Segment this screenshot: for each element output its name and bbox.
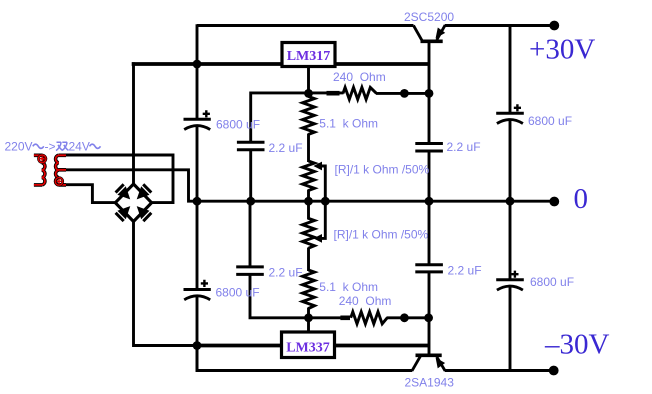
transformer T1 primary winding [34,155,45,185]
bridge rectifier diamond wires [115,184,151,222]
capacitor C7 2.2 uF bottom-right [415,265,443,272]
capacitor C2 2.2 uF top-left [237,142,265,150]
svg-text:–30V: –30V [544,329,610,361]
svg-text:2SC5200: 2SC5200 [404,10,454,24]
svg-text:LM337: LM337 [286,341,330,356]
resistor R4 240 Ohm bottom [351,312,388,324]
svg-text:2.2 uF: 2.2 uF [269,266,303,280]
transistor Q2 2SA1943 [412,355,445,371]
transformer T1 secondary winding with center tap [56,155,66,185]
junction node 0V rail x=308.5 [304,197,313,206]
wire transformer center tap to 0V rail [60,170,198,201]
wire 0V rail to bottom pot [307,201,310,220]
junction node LM337 input column [193,341,202,350]
wire right filter column x=510 [509,24,512,372]
wire LM317 adj stub down to junction [307,64,310,98]
svg-text:6800 uF: 6800 uF [216,118,260,132]
capacitor C6 2.2 uF bottom-left [236,267,264,275]
svg-text:LM317: LM317 [287,49,331,64]
capacitor C5 6800 uF bottom-left electrolytic [184,280,211,300]
wire bottom -30V rail left segment [197,344,412,371]
svg-text:+30V: +30V [529,34,595,66]
node -30V terminal [549,366,559,376]
potentiometer RP2 wiper arrow and lead to 0V rail [313,201,325,243]
wire 0V rail [197,200,554,203]
wire transformer secondary bottom to bridge left corner [60,185,117,203]
bridge diode D2 top-right [137,184,152,199]
wire LM337 input line y=345.5 to box [196,344,282,348]
wire top rail left segment [197,24,414,27]
svg-text:2SA1943: 2SA1943 [405,376,455,390]
wire thick stub before top 240 Ohm [327,91,340,96]
junction node 0V rail x=250.7 [246,197,255,206]
svg-text:240 Ohm: 240 Ohm [333,70,386,84]
svg-text:2.2 uF: 2.2 uF [448,264,482,278]
svg-text:6800 uF: 6800 uF [528,114,572,128]
wire top transistor base vertical x=429 [428,42,431,202]
label 220V~->double 24V~ transformer caption [5,140,101,154]
wire thick stub before bottom 240 Ohm [340,315,350,320]
wire between top 5.1k and top pot [307,134,310,163]
wire y=93.4 from left 2.2uF corner through junction to 240 Ohm [251,93,344,143]
potentiometer RP2 [R]/1 k Ohm /50% bottom body [303,218,315,248]
wire bottom 5.1k to junction and LM337 adj stub [307,308,310,346]
junction node LM337 adj / 240 Ohm [304,313,313,322]
wire top pot bottom to 0V rail [307,190,310,203]
wire bottom -30V rail right segment to terminal [445,369,554,372]
transistor Q1 2SC5200 [414,25,446,41]
capacitor C3 2.2 uF top-right [415,144,443,152]
svg-text:[R]/1 k Ohm /50%: [R]/1 k Ohm /50% [334,228,429,242]
svg-text:0: 0 [574,183,589,215]
svg-text:2.2 uF: 2.2 uF [269,141,303,155]
wire top rail right segment to +30V terminal [445,24,554,27]
node +30V terminal [549,21,559,31]
junction node 0V rail x=429 [425,197,434,206]
wire bottom-left 2.2uF corner to bottom junction y=317.8 [250,275,342,318]
wire bottom transistor base vertical x=429 [428,201,431,356]
wire top-left 2.2uF bottom lead to 0V rail [249,150,252,202]
junction node bottom base column y=317.8 [424,313,433,322]
svg-text:240 Ohm: 240 Ohm [339,294,392,308]
transformer T1 primary polarity mark [38,155,46,163]
bridge diode D4 bottom-right [137,206,152,221]
wire bottom-left 2.2uF top lead from 0V rail [249,201,252,268]
svg-text:6800 uF: 6800 uF [530,275,574,289]
wire bottom 240 Ohm right lead to junctions [387,316,429,319]
resistor R1 5.1 k Ohm top [303,97,315,135]
bridge diode D3 bottom-left [116,206,131,221]
svg-text:6800 uF: 6800 uF [216,286,260,300]
junction node 240 Ohm right [400,89,409,98]
regulator U1 LM317 box [282,43,335,67]
capacitor C8 6800 uF bottom-right electrolytic [496,271,524,291]
wire left unregulated positive vertical x=197 [196,24,199,372]
svg-text:5.1 k Ohm: 5.1 k Ohm [319,117,378,131]
svg-text:->: -> [45,140,56,154]
junction node 0V rail wiper x=325.3 [321,197,330,206]
junction node LM317 adj / 240 Ohm [304,89,313,98]
svg-text:220V: 220V [5,140,33,154]
resistor R3 240 Ohm top [343,87,377,99]
junction node 0V rail x=197 [193,197,202,206]
wire between bottom pot and bottom 5.1k [307,248,310,272]
potentiometer RP1 [R]/1 k Ohm /50% top body [303,161,315,191]
wire bridge bottom corner vertical x=133.5 down to LM337 input line [134,221,199,346]
regulator U2 LM337 box [282,332,335,358]
wire horizontal y=64 from bridge top column to LM317 input [132,62,282,66]
svg-text:24V: 24V [69,140,90,154]
node 0V terminal [549,197,559,207]
junction node top base column y=93.4 [425,89,434,98]
svg-text:2.2 uF: 2.2 uF [447,140,481,154]
junction node at LM317 input column [193,60,202,69]
wire 240 Ohm right lead to junctions [376,92,429,95]
capacitor C4 6800 uF top-right electrolytic [496,104,524,123]
wire LM317 output to pass transistor base [335,62,429,66]
junction node bottom 240 Ohm right [400,313,409,322]
capacitor C1 6800 uF top-left electrolytic [184,110,211,129]
svg-text:5.1 k Ohm: 5.1 k Ohm [319,280,378,294]
transformer T1 secondary polarity mark [55,178,63,186]
wire LM337 output to pass transistor base [335,344,429,348]
wire transformer secondary top to bridge right corner [60,155,173,203]
potentiometer RP1 wiper arrow and lead to 0V rail [313,162,325,202]
wire bridge top corner vertical x=133.5 [132,62,135,185]
resistor R2 5.1 k Ohm bottom [303,270,315,309]
bridge diode D1 top-left [116,184,131,199]
junction node 0V rail x=510 [506,197,515,206]
svg-text:[R]/1 k Ohm /50%: [R]/1 k Ohm /50% [335,163,430,177]
